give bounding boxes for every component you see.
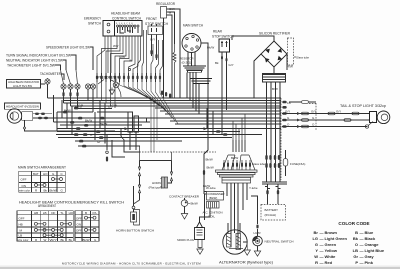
svg-text:Bk: Bk bbox=[44, 189, 48, 193]
svg-text:Orange: Orange bbox=[365, 242, 380, 247]
svg-text:HEADLIGHT BEAM CONTROL/EMERGEN: HEADLIGHT BEAM CONTROL/EMERGENCY KILL SW… bbox=[19, 200, 125, 204]
svg-text:LG/B: LG/B bbox=[110, 104, 117, 108]
svg-text:Blue: Blue bbox=[365, 230, 374, 235]
svg-text:W: W bbox=[129, 59, 132, 63]
svg-text:Gr: Gr bbox=[97, 140, 100, 144]
svg-text:W: W bbox=[169, 11, 172, 15]
svg-text:Bk/W: Bk/W bbox=[191, 202, 198, 206]
svg-text:—: — bbox=[320, 248, 324, 253]
svg-text:TURN SIGNAL INDICATOR LIGHT 6V: TURN SIGNAL INDICATOR LIGHT 6V1.5W bbox=[6, 54, 72, 58]
svg-text:G/Y: G/Y bbox=[150, 38, 155, 42]
svg-text:Bk/W: Bk/W bbox=[100, 122, 107, 126]
svg-text:CONTROL SWITCH: CONTROL SWITCH bbox=[112, 17, 141, 21]
svg-text:Bk/W: Bk/W bbox=[231, 156, 238, 160]
svg-text:G/Y: G/Y bbox=[311, 110, 316, 114]
svg-text:DF: DF bbox=[51, 211, 55, 215]
svg-text:G/W: G/W bbox=[119, 55, 125, 59]
svg-text:ARRANGEMENT: ARRANGEMENT bbox=[38, 204, 57, 208]
svg-text:—: — bbox=[320, 260, 324, 265]
svg-text:Red: Red bbox=[325, 260, 333, 265]
svg-text:W-tube: W-tube bbox=[206, 186, 216, 190]
svg-text:MOTORCYCLE WIRING DIAGRAM -: MOTORCYCLE WIRING DIAGRAM - HONDA CL70 S… bbox=[62, 262, 201, 266]
svg-text:R: R bbox=[315, 260, 318, 265]
svg-text:Pink: Pink bbox=[365, 260, 374, 265]
svg-text:SPEEDOMETER: SPEEDOMETER bbox=[96, 76, 119, 80]
svg-text:LB: LB bbox=[287, 101, 291, 105]
svg-text:TACHOMETER LIGHT 6V1.5W: TACHOMETER LIGHT 6V1.5W bbox=[7, 64, 56, 68]
svg-text:NEUTRAL INDICATOR LIGHT 6V1.5W: NEUTRAL INDICATOR LIGHT 6V1.5W bbox=[6, 59, 64, 63]
svg-text:P: P bbox=[355, 260, 358, 265]
svg-text:G/Y: G/Y bbox=[229, 63, 234, 67]
svg-text:(Flat type): (Flat type) bbox=[149, 186, 163, 190]
svg-text:—: — bbox=[360, 254, 364, 259]
svg-text:TL: TL bbox=[60, 211, 64, 215]
svg-text:Y: Y bbox=[315, 248, 318, 253]
svg-text:(6V4AH): (6V4AH) bbox=[265, 213, 277, 217]
svg-text:SPEEDOMETER LIGHT 6V1.5W: SPEEDOMETER LIGHT 6V1.5W bbox=[46, 46, 91, 50]
svg-text:HO: HO bbox=[43, 172, 48, 176]
svg-text:OFF: OFF bbox=[76, 229, 82, 233]
svg-text:HORN BUTTON SWITCH: HORN BUTTON SWITCH bbox=[116, 228, 154, 232]
svg-text:Bk/W: Bk/W bbox=[50, 189, 57, 193]
svg-text:—: — bbox=[360, 260, 364, 265]
svg-text:(Bk/W): (Bk/W) bbox=[209, 196, 217, 200]
svg-text:Y-tube: Y-tube bbox=[249, 186, 258, 190]
svg-text:Green: Green bbox=[325, 242, 337, 247]
svg-text:LB: LB bbox=[43, 211, 47, 215]
svg-text:OFF: OFF bbox=[21, 178, 27, 182]
svg-text:B: B bbox=[85, 211, 87, 215]
svg-text:—: — bbox=[320, 236, 324, 241]
svg-text:Bk: Bk bbox=[61, 238, 65, 242]
svg-text:G: G bbox=[315, 242, 318, 247]
svg-text:HB: HB bbox=[34, 211, 38, 215]
svg-text:W: W bbox=[44, 238, 47, 242]
svg-text:NEUTRAL SWITCH: NEUTRAL SWITCH bbox=[265, 240, 294, 244]
svg-text:Gray: Gray bbox=[365, 254, 375, 259]
svg-text:W/Y: W/Y bbox=[50, 238, 58, 242]
svg-text:BL: BL bbox=[69, 238, 73, 242]
svg-text:LG: LG bbox=[312, 236, 318, 241]
svg-text:Br: Br bbox=[314, 230, 319, 235]
svg-text:—: — bbox=[320, 230, 324, 235]
svg-text:TAIL & STOP LIGHT 3/32cp: TAIL & STOP LIGHT 3/32cp bbox=[340, 104, 386, 108]
svg-text:Light Green: Light Green bbox=[325, 236, 348, 241]
svg-text:G/Y: G/Y bbox=[336, 110, 341, 114]
svg-text:MAIN SWITCH ARRANGEMENT: MAIN SWITCH ARRANGEMENT bbox=[18, 166, 67, 170]
svg-text:—: — bbox=[360, 242, 364, 247]
svg-text:OFF: OFF bbox=[19, 216, 25, 220]
svg-text:wire color: wire color bbox=[18, 238, 29, 242]
svg-text:B/W: B/W bbox=[272, 87, 278, 91]
svg-text:HEADLIGHT BEAM: HEADLIGHT BEAM bbox=[111, 12, 140, 16]
svg-text:MAIN SWITCH: MAIN SWITCH bbox=[183, 24, 203, 28]
svg-text:Bk/W: Bk/W bbox=[206, 158, 213, 162]
svg-text:OFF: OFF bbox=[76, 216, 82, 220]
svg-text:CONDENSER: CONDENSER bbox=[207, 192, 224, 196]
svg-text:—: — bbox=[320, 254, 324, 259]
svg-text:P/L: P/L bbox=[93, 211, 98, 215]
svg-text:ON: ON bbox=[77, 222, 82, 226]
svg-text:Yellow: Yellow bbox=[325, 248, 338, 253]
svg-text:—: — bbox=[320, 242, 324, 247]
svg-text:HEADLIGHT 6V25/25W: HEADLIGHT 6V25/25W bbox=[6, 105, 39, 109]
svg-text:Black: Black bbox=[365, 236, 376, 241]
svg-text:HORN: HORN bbox=[152, 181, 161, 185]
svg-text:TACHOMETER: TACHOMETER bbox=[40, 72, 61, 76]
svg-text:SPARK PLUG: SPARK PLUG bbox=[177, 238, 195, 242]
svg-text:B: B bbox=[355, 230, 358, 235]
svg-text:SILICON RECTIFIER: SILICON RECTIFIER bbox=[259, 32, 290, 36]
svg-text:HO: HO bbox=[69, 211, 74, 215]
svg-text:BAT: BAT bbox=[33, 172, 39, 176]
svg-text:White: White bbox=[325, 254, 337, 259]
svg-text:LIGHT 6V1.5W: LIGHT 6V1.5W bbox=[13, 84, 32, 88]
svg-text:G/B: G/B bbox=[78, 104, 83, 108]
svg-text:EMERGENCY: EMERGENCY bbox=[84, 17, 101, 21]
svg-text:R/W: R/W bbox=[287, 65, 293, 69]
svg-text:W/Y: W/Y bbox=[113, 44, 119, 48]
svg-text:Glass tube: Glass tube bbox=[252, 162, 265, 166]
svg-text:ALTERNATOR (flywheel type): ALTERNATOR (flywheel type) bbox=[219, 261, 273, 265]
svg-text:COLOR CODE: COLOR CODE bbox=[338, 221, 369, 226]
svg-text:CONTACT BREAKER: CONTACT BREAKER bbox=[169, 194, 200, 198]
svg-text:W: W bbox=[314, 254, 318, 259]
svg-text:REAR: REAR bbox=[213, 30, 222, 34]
svg-text:Light Blue: Light Blue bbox=[365, 248, 385, 253]
svg-text:ON: ON bbox=[22, 184, 27, 188]
svg-text:HB: HB bbox=[19, 222, 23, 226]
svg-text:FUSE(15A): FUSE(15A) bbox=[290, 162, 305, 166]
svg-text:SWITCH: SWITCH bbox=[88, 22, 101, 26]
svg-text:O: O bbox=[355, 242, 358, 247]
svg-text:Bk: Bk bbox=[353, 236, 359, 241]
svg-text:Gr: Gr bbox=[353, 254, 358, 259]
svg-text:—: — bbox=[360, 236, 364, 241]
svg-text:G/Y: G/Y bbox=[285, 110, 290, 114]
svg-text:BATTERY: BATTERY bbox=[265, 208, 279, 212]
svg-text:REGULATOR: REGULATOR bbox=[156, 2, 175, 6]
svg-text:Bk/W: Bk/W bbox=[85, 119, 92, 123]
svg-text:wire color: wire color bbox=[19, 189, 30, 193]
svg-text:(0.5Ω): (0.5Ω) bbox=[182, 61, 192, 65]
svg-text:FRONT: FRONT bbox=[146, 17, 158, 21]
svg-text:Bk/W: Bk/W bbox=[83, 238, 90, 242]
svg-text:COIL: COIL bbox=[208, 214, 215, 218]
svg-text:Bk: Bk bbox=[215, 61, 219, 65]
svg-text:—: — bbox=[360, 230, 364, 235]
svg-text:STOP SWITCH: STOP SWITCH bbox=[212, 35, 234, 39]
svg-text:Brown: Brown bbox=[325, 230, 338, 235]
svg-text:Glass tube: Glass tube bbox=[296, 56, 309, 60]
svg-text:—: — bbox=[360, 248, 364, 253]
svg-text:Br/W: Br/W bbox=[64, 109, 71, 113]
svg-text:Bk/W: Bk/W bbox=[207, 166, 214, 170]
svg-text:LB: LB bbox=[353, 248, 358, 253]
